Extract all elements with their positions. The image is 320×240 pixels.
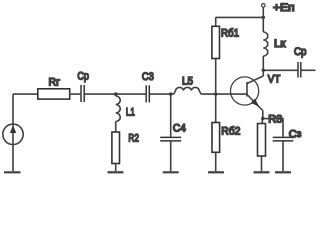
- svg-text:VT: VT: [268, 74, 281, 86]
- wire C4 to ground: [170, 142, 172, 172]
- node L1 junction: [114, 92, 117, 95]
- node C4 junction: [169, 92, 172, 95]
- svg-text:Rб2: Rб2: [221, 125, 240, 137]
- node base junction: [214, 92, 217, 95]
- svg-text:Rг: Rг: [49, 76, 61, 88]
- resistor R62: [212, 123, 220, 153]
- svg-text:Cр: Cр: [77, 70, 89, 82]
- resistor R62 branch wire: [215, 94, 217, 122]
- svg-text:+Еп: +Еп: [273, 2, 295, 14]
- wire collector to Cp out: [263, 69, 297, 71]
- svg-text:R3: R3: [268, 114, 282, 126]
- svg-text:L5: L5: [182, 76, 193, 88]
- svg-text:L1: L1: [126, 106, 135, 118]
- wire emitter node to C3e: [263, 119, 283, 137]
- wire R61 to rail: [215, 17, 217, 26]
- ground (current source): [4, 171, 21, 173]
- wire emitter node to R3: [261, 119, 263, 124]
- ground (R62): [208, 171, 224, 173]
- supply terminal: [262, 4, 266, 18]
- transistor VT: [231, 70, 264, 118]
- capacitor Cp (output): [298, 62, 301, 78]
- ground (R2): [108, 171, 124, 173]
- wire L5 to base: [201, 93, 247, 95]
- svg-text:з: з: [297, 129, 302, 140]
- ground (C3 emitter): [275, 171, 291, 173]
- ground (R3): [254, 171, 270, 173]
- node collector junction: [262, 69, 265, 72]
- wire input to Rr: [13, 93, 38, 95]
- ground (C4): [163, 171, 179, 173]
- wire R62 to ground: [215, 152, 217, 171]
- inductor L5: [174, 87, 201, 94]
- top rail: [216, 16, 264, 18]
- node rail junction: [262, 16, 265, 19]
- svg-text:Cр: Cр: [294, 46, 307, 58]
- capacitor C4: [160, 137, 181, 141]
- capacitor C3 (series): [146, 85, 149, 102]
- capacitor C4 branch wire: [170, 94, 172, 137]
- svg-text:Lк: Lк: [274, 38, 286, 50]
- wire C3e to ground: [282, 142, 284, 172]
- wire R2 to ground: [115, 164, 117, 172]
- wire Cp to C3: [85, 93, 146, 95]
- svg-text:C4: C4: [173, 123, 186, 135]
- inductor Lk: [263, 17, 268, 70]
- wire C3 to L5 with node C4: [150, 93, 174, 95]
- wire Cp out to edge: [302, 69, 316, 71]
- wire Rr to Cp: [70, 93, 81, 95]
- resistor R61: [212, 26, 220, 58]
- svg-text:C: C: [289, 128, 297, 140]
- wire R3 to ground: [261, 156, 263, 171]
- svg-text:R2: R2: [128, 132, 139, 144]
- resistor R61 branch wire: [215, 59, 217, 95]
- current source I1: [3, 94, 23, 171]
- inductor L1: [116, 94, 121, 132]
- node emitter junction: [261, 117, 264, 120]
- capacitor C3 emitter: [273, 137, 294, 141]
- svg-text:Rб1: Rб1: [221, 28, 239, 40]
- svg-text:C3: C3: [142, 71, 154, 83]
- resistor R2: [112, 132, 120, 164]
- resistor R3: [258, 124, 266, 157]
- capacitor Cp (input): [81, 85, 84, 102]
- resistor Rr: [38, 89, 70, 99]
